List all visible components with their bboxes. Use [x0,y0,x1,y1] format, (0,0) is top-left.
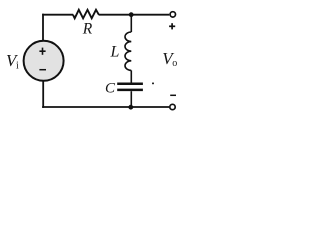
svg-text:Vi: Vi [6,51,19,71]
svg-text:Vo: Vo [162,49,177,69]
svg-text:R: R [82,21,93,38]
svg-text:C: C [105,80,116,96]
svg-text:L: L [110,44,120,61]
